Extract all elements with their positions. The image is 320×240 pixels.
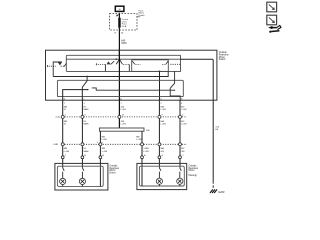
- svg-text:G200: G200: [218, 190, 225, 194]
- svg-text:MAH: MAH: [84, 150, 89, 153]
- inner rect R4 (lower contact box): [57, 80, 183, 96]
- outside rearview mirror passenger box: [137, 163, 187, 189]
- svg-text:MA: MA: [161, 106, 165, 109]
- svg-text:(C2): (C2): [56, 117, 61, 119]
- node supply junction 2: [115, 58, 117, 60]
- pin labels below box: [64, 103, 183, 105]
- pin letters above box bottom: [64, 98, 184, 101]
- svg-text:L-GN: L-GN: [181, 123, 187, 125]
- contact mid-left (dashed with triangle): [95, 63, 97, 65]
- svg-text:LMB: LMB: [53, 144, 58, 146]
- svg-text:GN: GN: [161, 151, 165, 153]
- fuse F (cruise fuse element): [118, 18, 120, 27]
- svg-text:L-GN: L-GN: [161, 109, 167, 111]
- svg-text:10 A: 10 A: [122, 25, 127, 28]
- wire horizontal bus y76.5: [53, 71, 168, 76]
- motor M1: [60, 178, 66, 184]
- svg-text:L-GN: L-GN: [121, 109, 127, 111]
- wire G into box joins bus: [99, 168, 101, 187]
- contact breaks left box: [63, 168, 64, 179]
- icon hand/signature (top right 3): [268, 25, 281, 32]
- wire supply continues to box bottom: [118, 50, 120, 100]
- node supply-bus junction: [119, 89, 121, 91]
- svg-text:MA: MA: [161, 120, 165, 123]
- svg-text:L-GN: L-GN: [136, 139, 142, 141]
- svg-text:L-GN: L-GN: [161, 123, 167, 125]
- svg-text:MA: MA: [161, 147, 165, 150]
- wire D (x159.4): [158, 100, 160, 168]
- node supply junction: [119, 58, 121, 60]
- motor M3: [156, 178, 162, 184]
- inner rect R2 (center contact box): [132, 60, 169, 72]
- ground G200 symbol: [210, 189, 217, 193]
- svg-text:L-GN: L-GN: [102, 151, 108, 153]
- splice bar S206: [99, 128, 144, 131]
- wire labels above row2: [102, 136, 142, 141]
- switch arm right pole: [170, 71, 180, 100]
- svg-text:Undrh: Undrh: [139, 14, 146, 17]
- wire A (x62.7) down to left mirror: [62, 100, 64, 168]
- svg-text:ORN: ORN: [121, 42, 127, 45]
- ground wire dashed section: [212, 181, 214, 188]
- wire G from splice left (x100.4): [99, 131, 101, 168]
- wire cross bus with jog: [92, 88, 175, 90]
- contact right of supply (dashed): [123, 63, 129, 65]
- contact in R2 left: [132, 61, 135, 64]
- wire B (x82.4): [81, 100, 83, 168]
- wire ground feed to right edge: [181, 59, 214, 100]
- wire E (x180): [179, 100, 181, 168]
- svg-text:Switch: Switch: [219, 58, 226, 61]
- contact in R2 right: [162, 63, 166, 65]
- svg-text:MAH: MAH: [84, 122, 89, 125]
- icon zoom-out (top right 1): [267, 2, 277, 12]
- outside rearview mirror switch box: [46, 50, 217, 100]
- fuse value label: [122, 18, 129, 28]
- wire down from R1 bottom to box bottom (right mirror feed): [159, 71, 161, 100]
- svg-text:Passngr: Passngr: [189, 174, 198, 177]
- wire H from splice right (x142): [141, 131, 143, 168]
- fuse block dashed outline: [110, 14, 138, 30]
- svg-text:L-GN: L-GN: [143, 151, 149, 153]
- svg-text:Driver: Driver: [110, 172, 116, 175]
- wire left output via y89.6: [63, 90, 89, 101]
- switch arm left pole: [86, 76, 88, 78]
- wire supply vertical from fuse block to switch: [118, 13, 120, 58]
- label Outside Rearview Mirror Switch: [219, 51, 229, 61]
- label Fuse Block Underhood: [139, 10, 146, 16]
- svg-text:L-GN: L-GN: [102, 139, 108, 141]
- outside rearview mirror driver box: [55, 163, 108, 190]
- node on R1 bottom: [159, 71, 161, 73]
- wire name labels above row1: [64, 106, 187, 112]
- wire labels below row2: [64, 147, 185, 153]
- supply wiper arms: [116, 59, 122, 64]
- svg-text:L-GN: L-GN: [181, 109, 187, 111]
- node right fixed contact: [174, 90, 175, 91]
- wire H into box joins bus: [141, 168, 143, 186]
- svg-text:L-GN: L-GN: [121, 123, 127, 125]
- connector tick at fuse block entry: [116, 14, 118, 16]
- svg-text:L-GN: L-GN: [64, 151, 70, 153]
- wire F ground (x213.2): [212, 100, 214, 181]
- svg-text:GN: GN: [181, 151, 185, 153]
- wire second left output: [81, 90, 83, 101]
- wire triangle feed riser: [53, 62, 62, 77]
- motor M4: [177, 178, 183, 184]
- contact breaks right box: [159, 168, 161, 178]
- svg-text:Mirror: Mirror: [189, 169, 195, 172]
- motor M2: [79, 178, 85, 184]
- inner rect R1 (switch bus box): [66, 55, 180, 71]
- icon zoom-in (top right 2): [267, 15, 277, 25]
- wire labels below row1: [64, 120, 187, 126]
- contact group far right (dashed): [170, 63, 180, 65]
- node left fixed contact: [87, 89, 88, 90]
- motor stubs to bus: [62, 185, 64, 187]
- wire inner bus y59.2: [66, 58, 180, 60]
- select switch contact left (dashed with triangle): [46, 65, 48, 67]
- wire C center (x119.4) to splice: [118, 100, 120, 128]
- fuse block connector F1 (top black box): [115, 6, 124, 11]
- svg-text:MAH: MAH: [84, 108, 89, 111]
- inline connectors above mirror boxes: [61, 156, 181, 159]
